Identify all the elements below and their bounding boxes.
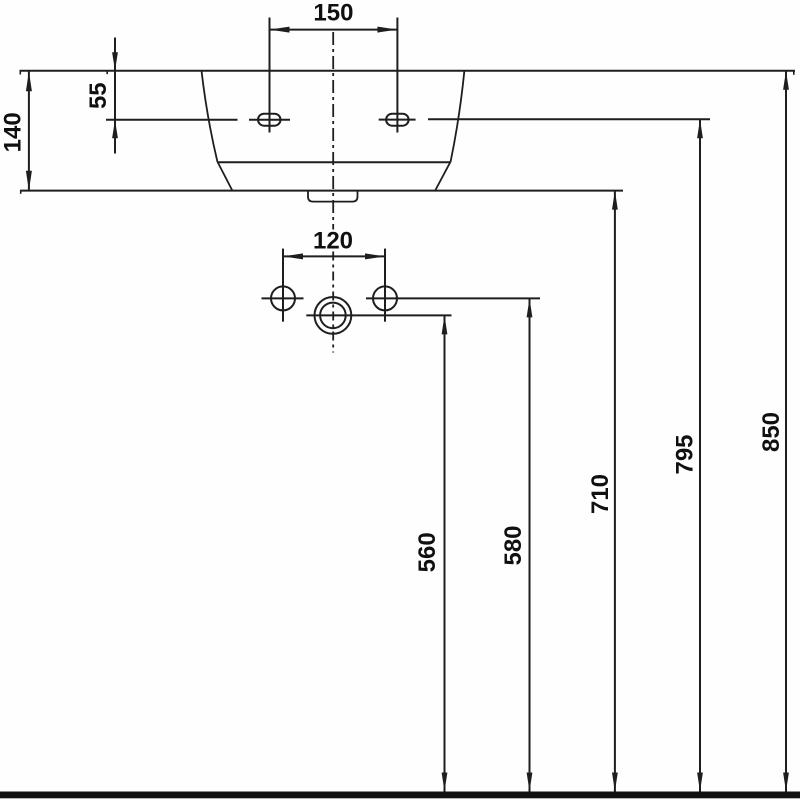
dim 150 extension line right: [396, 18, 398, 133]
dim 560 vertical line: [442, 315, 448, 791]
560 reference line: [306, 314, 451, 316]
dim 140 dimension line: [26, 71, 32, 191]
svg-text:55: 55: [85, 82, 112, 109]
dim 850 vertical line: [783, 71, 789, 792]
centerline lower: [332, 252, 334, 353]
floor line: [0, 792, 800, 799]
dim 120 arrow left: [283, 253, 303, 259]
basin right outer edge: [435, 72, 464, 191]
basin left outer edge: [202, 72, 233, 191]
svg-text:710: 710: [587, 474, 614, 514]
wall top line: [20, 71, 796, 75]
mounting-hole axis line right segment: [428, 118, 710, 120]
dim 55 vertical line: [112, 38, 118, 154]
dim 150 extension line left: [269, 18, 271, 133]
mounting-hole axis line left segment: [106, 119, 238, 121]
drain tab: [308, 191, 358, 202]
dim 150 dimension line: [270, 29, 398, 31]
dim 710 vertical line: [612, 191, 618, 792]
mounting hole right: [379, 114, 416, 126]
fixing hole circle right: [373, 286, 397, 310]
fixing hole circle left: [262, 286, 304, 310]
mounting hole left: [249, 114, 290, 126]
dim 120 arrow right: [365, 253, 385, 259]
dim 150 arrow left: [270, 27, 290, 33]
wall line small tick: [106, 71, 108, 74]
dim 120 extension line right: [384, 249, 386, 322]
dim 120 extension line left: [282, 249, 284, 322]
svg-text:150: 150: [313, 0, 353, 26]
dim 150 arrow right: [377, 27, 397, 33]
580 reference line: [366, 297, 540, 299]
drain outlet outer circle: [315, 297, 352, 334]
svg-text:120: 120: [313, 228, 353, 255]
svg-text:560: 560: [414, 532, 441, 572]
basin bottom rim line: [20, 191, 623, 194]
dim 580 vertical line: [527, 298, 533, 791]
svg-text:795: 795: [671, 434, 698, 474]
svg-text:580: 580: [500, 525, 527, 565]
dim 795 vertical line: [697, 119, 703, 791]
drain outlet inner circle: [320, 303, 346, 329]
basin inner bottom line: [217, 161, 450, 163]
dim 120 dimension line: [283, 255, 385, 257]
svg-text:140: 140: [0, 112, 27, 152]
svg-text:850: 850: [758, 412, 785, 452]
centerline upper: [332, 32, 334, 230]
